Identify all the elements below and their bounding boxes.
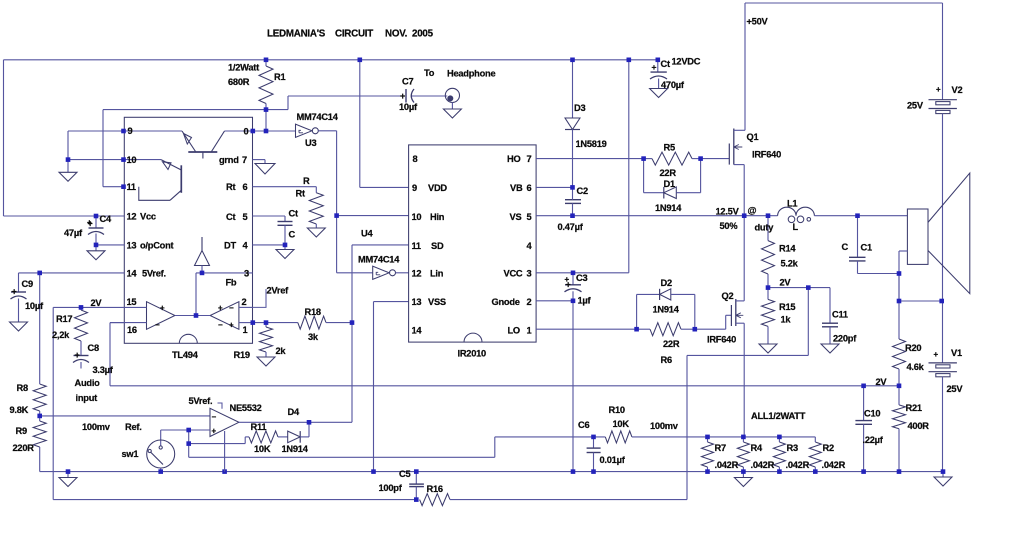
svg-text:R1: R1 [274,72,285,82]
svg-text:7: 7 [242,155,247,165]
svg-text:3k: 3k [308,332,319,342]
svg-text:+: + [229,321,234,330]
svg-text:R: R [303,176,310,186]
svg-text:3: 3 [244,269,249,279]
svg-text:C8: C8 [88,343,99,353]
svg-text:10µf: 10µf [399,102,418,112]
svg-text:2005: 2005 [412,29,434,40]
svg-text:5.2k: 5.2k [781,259,799,269]
svg-text:5Vref.: 5Vref. [189,396,213,406]
svg-text:0.01µf: 0.01µf [600,455,626,465]
svg-text:VSS: VSS [428,297,446,307]
svg-text:CIRCUIT: CIRCUIT [335,29,373,40]
svg-text:Ref.: Ref. [125,422,142,432]
svg-text:0: 0 [244,127,249,137]
svg-text:220R: 220R [13,443,35,453]
svg-text:LEDMANIA'S: LEDMANIA'S [267,29,326,40]
svg-text:R3: R3 [787,443,798,453]
svg-text:+: + [218,303,223,312]
svg-text:C: C [842,242,849,252]
svg-text:C7: C7 [402,77,413,87]
svg-text:R20: R20 [905,343,921,353]
svg-text:V2: V2 [952,85,963,95]
svg-text:+: + [936,85,941,94]
svg-text:+: + [12,287,17,297]
svg-text:7: 7 [527,154,532,164]
svg-text:R15: R15 [779,302,795,312]
svg-text:5: 5 [527,212,532,222]
svg-text:22R: 22R [660,168,677,178]
svg-text:DT: DT [224,241,236,251]
svg-text:D2: D2 [661,278,672,288]
svg-text:2V: 2V [780,278,792,288]
svg-text:D4: D4 [288,407,300,417]
svg-text:U3: U3 [305,138,316,148]
svg-text:.042R: .042R [715,460,739,470]
svg-text:NOV.: NOV. [385,29,408,40]
svg-text:C1: C1 [861,243,872,253]
svg-text:R5: R5 [664,143,675,153]
svg-text:+: + [934,350,939,359]
svg-text:2k: 2k [276,346,287,356]
svg-text:−: − [218,321,223,330]
svg-text:C2: C2 [577,186,588,196]
svg-text:.22µf: .22µf [863,435,884,445]
svg-text:C6: C6 [578,420,589,430]
svg-text:Headphone: Headphone [447,69,495,79]
svg-text:25V: 25V [947,384,964,394]
svg-text:1N914: 1N914 [655,203,682,213]
svg-text:1k: 1k [781,315,792,325]
svg-text:+: + [212,427,217,436]
svg-text:.042R: .042R [822,460,846,470]
svg-text:R4: R4 [751,443,763,453]
svg-text:6: 6 [243,182,248,192]
svg-text:HO: HO [507,154,520,164]
svg-text:100mv: 100mv [650,421,679,431]
svg-text:1N914: 1N914 [653,305,680,315]
svg-text:D1: D1 [664,179,675,189]
svg-text:R11: R11 [251,422,267,432]
svg-text:Vcc: Vcc [140,212,156,222]
svg-text:IR2010: IR2010 [458,349,487,359]
svg-text:1: 1 [243,325,248,335]
svg-text:47µf: 47µf [64,228,83,238]
svg-text:3: 3 [527,269,532,279]
svg-text:12: 12 [412,269,422,279]
svg-text:+50V: +50V [747,17,769,27]
svg-text:MM74C14: MM74C14 [358,255,400,265]
svg-text:C3: C3 [576,273,587,283]
svg-text:C4: C4 [100,214,112,224]
svg-text:LO: LO [508,326,520,336]
svg-text:14: 14 [127,269,138,279]
svg-text:R7: R7 [715,443,726,453]
svg-text:Lin: Lin [430,269,444,279]
svg-text:+: + [400,91,405,101]
svg-text:R17: R17 [56,314,72,324]
svg-text:2Vref: 2Vref [267,286,290,296]
svg-text:400R: 400R [908,421,930,431]
svg-text:Rt: Rt [296,189,305,199]
svg-text:50%: 50% [720,221,739,231]
svg-text:SD: SD [431,241,444,251]
svg-text:Fb: Fb [226,278,237,288]
svg-text:R8: R8 [17,383,28,393]
svg-text:Hin: Hin [430,212,445,222]
svg-text:2V: 2V [876,377,888,387]
svg-text:+: + [160,303,165,312]
svg-text:+: + [75,350,80,360]
svg-text:6: 6 [527,183,532,193]
svg-text:VDD: VDD [428,183,447,193]
svg-text:R2: R2 [823,443,834,453]
svg-text:10: 10 [412,212,422,222]
svg-text:R14: R14 [779,244,796,254]
svg-text:10µf: 10µf [25,301,44,311]
svg-text:Ct: Ct [226,212,235,222]
svg-text:Gnode: Gnode [492,297,520,307]
svg-text:R6: R6 [661,355,672,365]
svg-text:1: 1 [527,326,532,336]
svg-text:R21: R21 [906,403,922,413]
svg-text:100mv: 100mv [82,422,111,432]
svg-text:220pf: 220pf [833,334,857,344]
svg-text:11: 11 [127,182,136,192]
svg-text:NE5532: NE5532 [230,403,262,413]
svg-text:grnd: grnd [219,155,239,165]
svg-text:R16: R16 [427,484,443,494]
svg-text:V1: V1 [951,348,962,358]
svg-text:Q2: Q2 [722,291,734,301]
svg-text:12: 12 [127,212,137,222]
svg-text:8: 8 [413,154,418,164]
svg-text:1/2Watt: 1/2Watt [228,63,259,73]
svg-text:o/pCont: o/pCont [140,241,174,251]
svg-text:5: 5 [243,212,248,222]
svg-text:13: 13 [127,241,137,251]
svg-text:+: + [87,218,92,227]
svg-text:D3: D3 [574,103,585,113]
svg-text:C10: C10 [864,409,880,419]
svg-text:+: + [652,62,657,72]
svg-text:9: 9 [412,183,417,193]
svg-text:10K: 10K [613,419,630,429]
svg-text:2V: 2V [91,298,103,308]
svg-text:R19: R19 [234,350,250,360]
svg-text:470µf: 470µf [661,80,685,90]
svg-text:2: 2 [242,297,247,307]
svg-text:IRF640: IRF640 [707,335,736,345]
svg-text:11: 11 [412,241,421,251]
svg-text:0.47µf: 0.47µf [558,222,584,232]
svg-text:2: 2 [527,297,532,307]
svg-text:9.8K: 9.8K [10,405,29,415]
svg-text:Audio: Audio [75,378,101,388]
svg-text:VB: VB [510,183,523,193]
svg-text:12VDC: 12VDC [672,56,701,66]
svg-text:−: − [229,303,234,312]
svg-text:U4: U4 [361,229,373,239]
svg-text:Ct: Ct [661,59,670,69]
svg-text:VCC: VCC [504,269,523,279]
svg-text:4.6k: 4.6k [907,362,925,372]
svg-text:3.3µf: 3.3µf [93,365,114,375]
svg-text:25V: 25V [907,101,924,111]
svg-text:R10: R10 [609,405,625,415]
svg-text:10: 10 [127,155,137,165]
svg-text:16: 16 [127,325,137,335]
svg-text:C: C [289,230,296,240]
svg-text:15: 15 [127,297,137,307]
svg-text:1N914: 1N914 [282,444,309,454]
svg-text:IRF640: IRF640 [752,150,781,160]
svg-text:13: 13 [412,297,422,307]
svg-text:TL494: TL494 [172,350,199,360]
svg-text:R9: R9 [16,426,27,436]
svg-text:C11: C11 [832,310,848,320]
svg-text:10K: 10K [254,444,271,454]
svg-text:1N5819: 1N5819 [576,139,607,149]
svg-text:Ct: Ct [289,209,298,219]
svg-text:input: input [76,393,98,403]
svg-text:22R: 22R [663,339,680,349]
svg-text:L: L [793,222,799,232]
svg-text:1µf: 1µf [578,296,592,306]
svg-text:.042R: .042R [751,460,775,470]
svg-text:100pf: 100pf [379,483,403,493]
svg-text:.042R: .042R [786,460,810,470]
svg-text:L1: L1 [787,198,797,208]
svg-text:Q1: Q1 [747,132,759,142]
svg-text:VS: VS [510,212,522,222]
svg-text:@: @ [748,206,757,216]
svg-text:2,2k: 2,2k [52,330,70,340]
svg-text:MM74C14: MM74C14 [297,112,339,122]
svg-text:ALL1/2WATT: ALL1/2WATT [751,411,806,421]
svg-text:−: − [212,413,217,422]
svg-text:To: To [424,68,435,78]
svg-text:680R: 680R [228,77,250,87]
svg-text:−: − [155,321,160,330]
svg-text:12.5V: 12.5V [716,207,740,217]
svg-text:sw1: sw1 [122,449,139,459]
svg-text:9: 9 [128,126,133,136]
svg-text:C9: C9 [22,279,33,289]
svg-text:Rt: Rt [226,182,235,192]
svg-text:duty: duty [755,223,775,233]
svg-text:5Vref.: 5Vref. [142,269,166,279]
svg-text:R18: R18 [305,307,321,317]
svg-text:+: + [565,275,570,284]
svg-text:C5: C5 [399,469,410,479]
svg-text:14: 14 [412,326,423,336]
